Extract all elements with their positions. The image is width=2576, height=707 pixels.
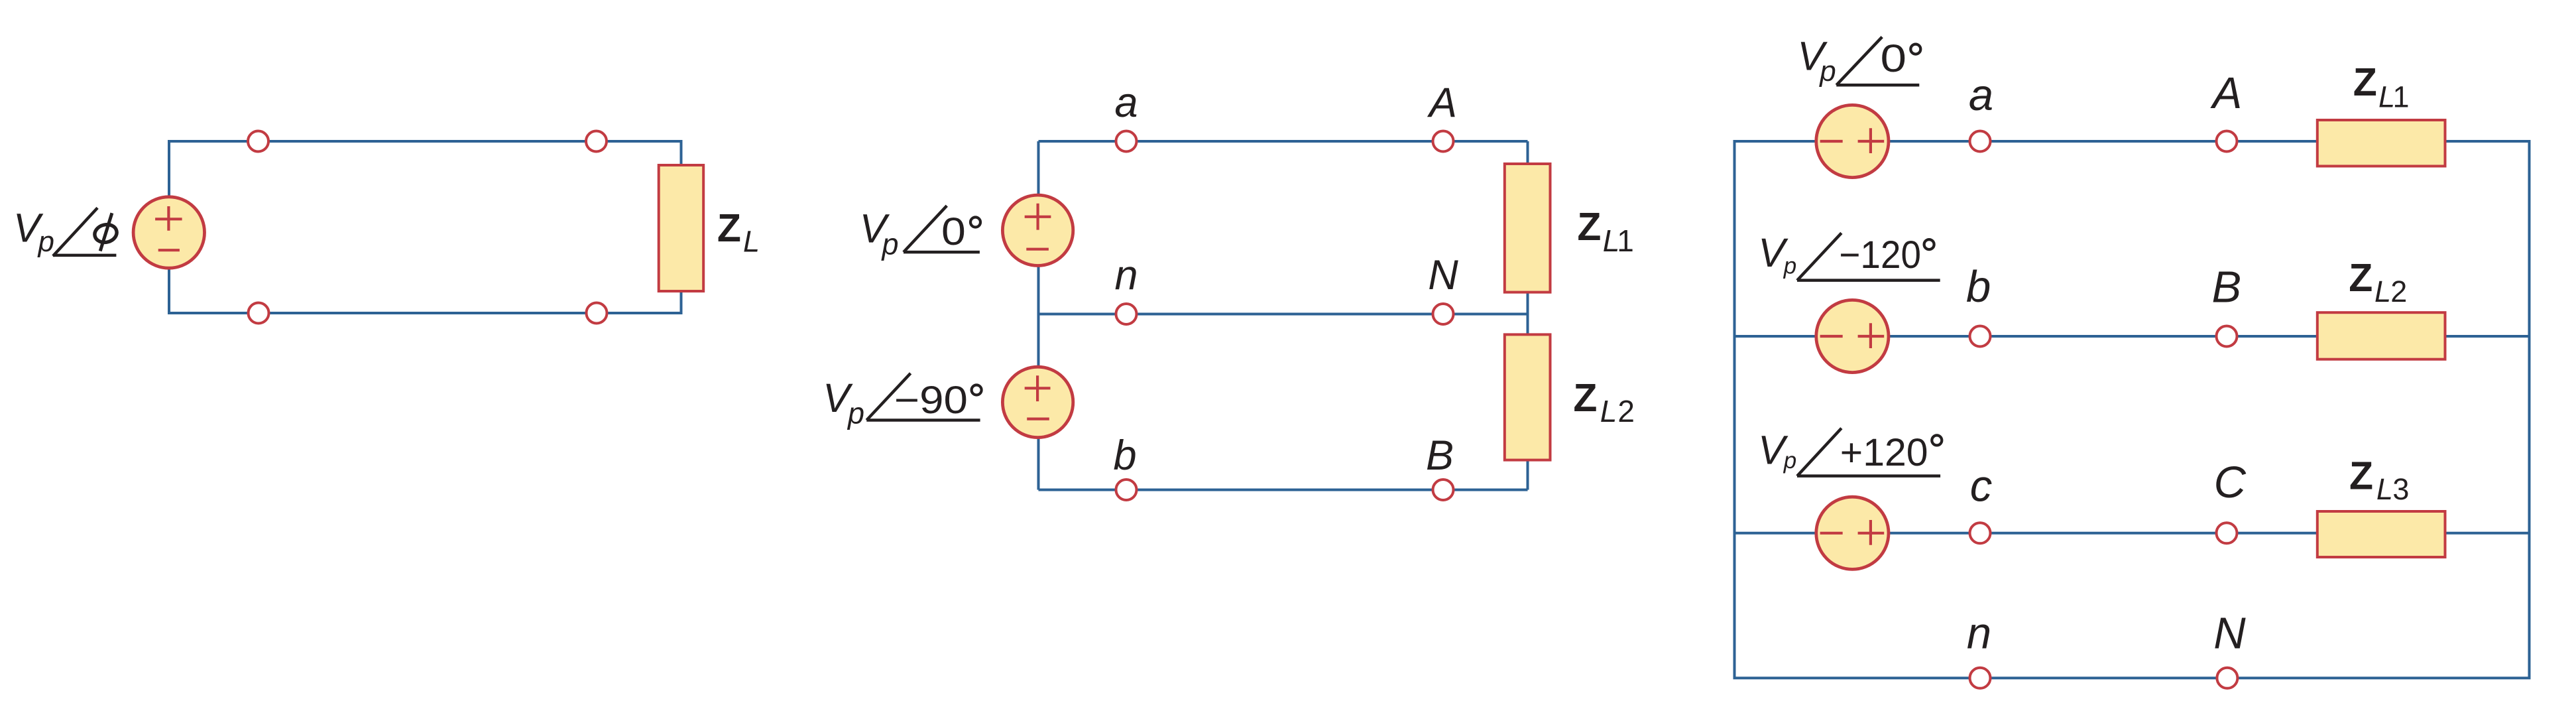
- terminal B c3: [2217, 326, 2237, 347]
- svg-text:+120: +120: [1840, 431, 1928, 474]
- terminal circuit1 top-right: [586, 131, 607, 152]
- terminal A c3: [2217, 131, 2237, 152]
- terminal b c3: [1970, 326, 1991, 347]
- terminal n c3: [1970, 668, 1991, 688]
- wire outer loop circuit3: [1735, 141, 2530, 678]
- wire row n: [1039, 313, 1528, 316]
- source2b minus sign: [1027, 417, 1049, 420]
- load ZL1 rectangle c3: [2317, 120, 2445, 166]
- terminal n: [1116, 304, 1137, 324]
- wire loop circuit1: [169, 141, 681, 313]
- terminal c c3: [1970, 523, 1991, 543]
- source3c minus sign: [1820, 532, 1843, 535]
- wire row b phase: [1735, 335, 2530, 338]
- phi glyph: [93, 222, 119, 245]
- source2b plus sign: [1025, 375, 1051, 401]
- svg-text:n: n: [1967, 609, 1991, 659]
- svg-text:1: 1: [1617, 224, 1634, 258]
- svg-text:p: p: [1783, 448, 1796, 474]
- voltage source Vp angle +120 c3: [1816, 497, 1889, 569]
- load ZL2 rectangle: [1505, 334, 1551, 460]
- wire row b: [1039, 489, 1528, 491]
- terminal circuit1 top-left: [248, 131, 268, 152]
- source2a minus sign: [1026, 248, 1049, 251]
- voltage source Vp angle -90: [1002, 367, 1073, 437]
- svg-text:n: n: [1114, 252, 1138, 298]
- svg-text:0: 0: [941, 210, 966, 253]
- svg-text:b: b: [1966, 262, 1991, 312]
- svg-text:B: B: [2211, 263, 2241, 312]
- svg-text:A: A: [1427, 80, 1457, 126]
- source3c plus sign: [1858, 520, 1885, 545]
- load ZL1 rectangle: [1505, 164, 1551, 292]
- source2a plus sign: [1025, 204, 1051, 230]
- angle symbol underline: [53, 254, 116, 257]
- load ZL rectangle: [659, 165, 703, 291]
- svg-text:p: p: [847, 397, 864, 430]
- terminal B: [1433, 480, 1454, 500]
- svg-text:3: 3: [2392, 472, 2409, 506]
- svg-text:2: 2: [2390, 275, 2407, 308]
- svg-text:p: p: [37, 225, 54, 258]
- load ZL3 rectangle c3: [2317, 511, 2445, 557]
- voltage source Vp angle 0: [1002, 195, 1073, 265]
- svg-text:Z: Z: [1577, 205, 1601, 249]
- svg-text:C: C: [2214, 458, 2247, 507]
- voltage source Vp angle 0 c3: [1816, 105, 1889, 177]
- svg-text:a: a: [1114, 80, 1138, 126]
- terminal circuit1 bottom-left: [249, 303, 269, 324]
- svg-text:B: B: [1426, 432, 1454, 479]
- svg-text:−90: −90: [894, 379, 968, 422]
- source3b plus sign: [1858, 323, 1885, 348]
- svg-text:p: p: [1818, 55, 1836, 88]
- wire right bus through loads: [1527, 141, 1529, 490]
- terminal N c3: [2217, 668, 2237, 688]
- svg-text:Z: Z: [717, 206, 741, 250]
- svg-text:p: p: [881, 227, 899, 261]
- voltage source Vp angle phi: [133, 197, 204, 268]
- terminal N: [1433, 304, 1454, 324]
- svg-text:0: 0: [1881, 37, 1907, 80]
- terminal C c3: [2217, 523, 2237, 543]
- source minus sign: [158, 249, 180, 251]
- svg-text:a: a: [1969, 70, 1993, 120]
- svg-text:1: 1: [2393, 80, 2410, 113]
- load ZL2 rectangle c3: [2317, 312, 2445, 359]
- terminal a c3: [1970, 131, 1991, 152]
- svg-text:Z: Z: [1573, 376, 1597, 420]
- svg-text:L: L: [743, 225, 760, 259]
- terminal A: [1433, 131, 1454, 152]
- voltage source Vp angle -120 c3: [1816, 300, 1889, 372]
- wire left bus circuit2: [1037, 141, 1040, 490]
- wire row c phase: [1735, 532, 2530, 535]
- terminal a: [1116, 131, 1137, 152]
- svg-text:N: N: [1428, 252, 1458, 298]
- wire row a: [1039, 140, 1528, 143]
- svg-text:N: N: [2213, 609, 2246, 659]
- source3a plus sign: [1858, 128, 1885, 153]
- source3a minus sign: [1820, 140, 1843, 143]
- svg-text:Z: Z: [2349, 454, 2373, 498]
- svg-text:Z: Z: [2349, 256, 2372, 300]
- svg-text:L: L: [2374, 275, 2391, 308]
- svg-text:A: A: [2210, 68, 2243, 118]
- angle symbol diagonal: [53, 208, 97, 256]
- terminal circuit1 bottom-right: [587, 303, 607, 324]
- svg-text:−120: −120: [1839, 233, 1921, 277]
- svg-text:p: p: [1783, 253, 1796, 279]
- terminal b: [1116, 480, 1137, 500]
- svg-text:2: 2: [1617, 394, 1635, 428]
- svg-text:c: c: [1970, 462, 1993, 511]
- svg-text:L: L: [1600, 394, 1617, 428]
- svg-text:L: L: [2376, 472, 2393, 506]
- source3b minus sign: [1820, 335, 1843, 338]
- svg-text:b: b: [1113, 432, 1136, 479]
- svg-text:Z: Z: [2353, 60, 2377, 104]
- source plus sign: [155, 206, 182, 231]
